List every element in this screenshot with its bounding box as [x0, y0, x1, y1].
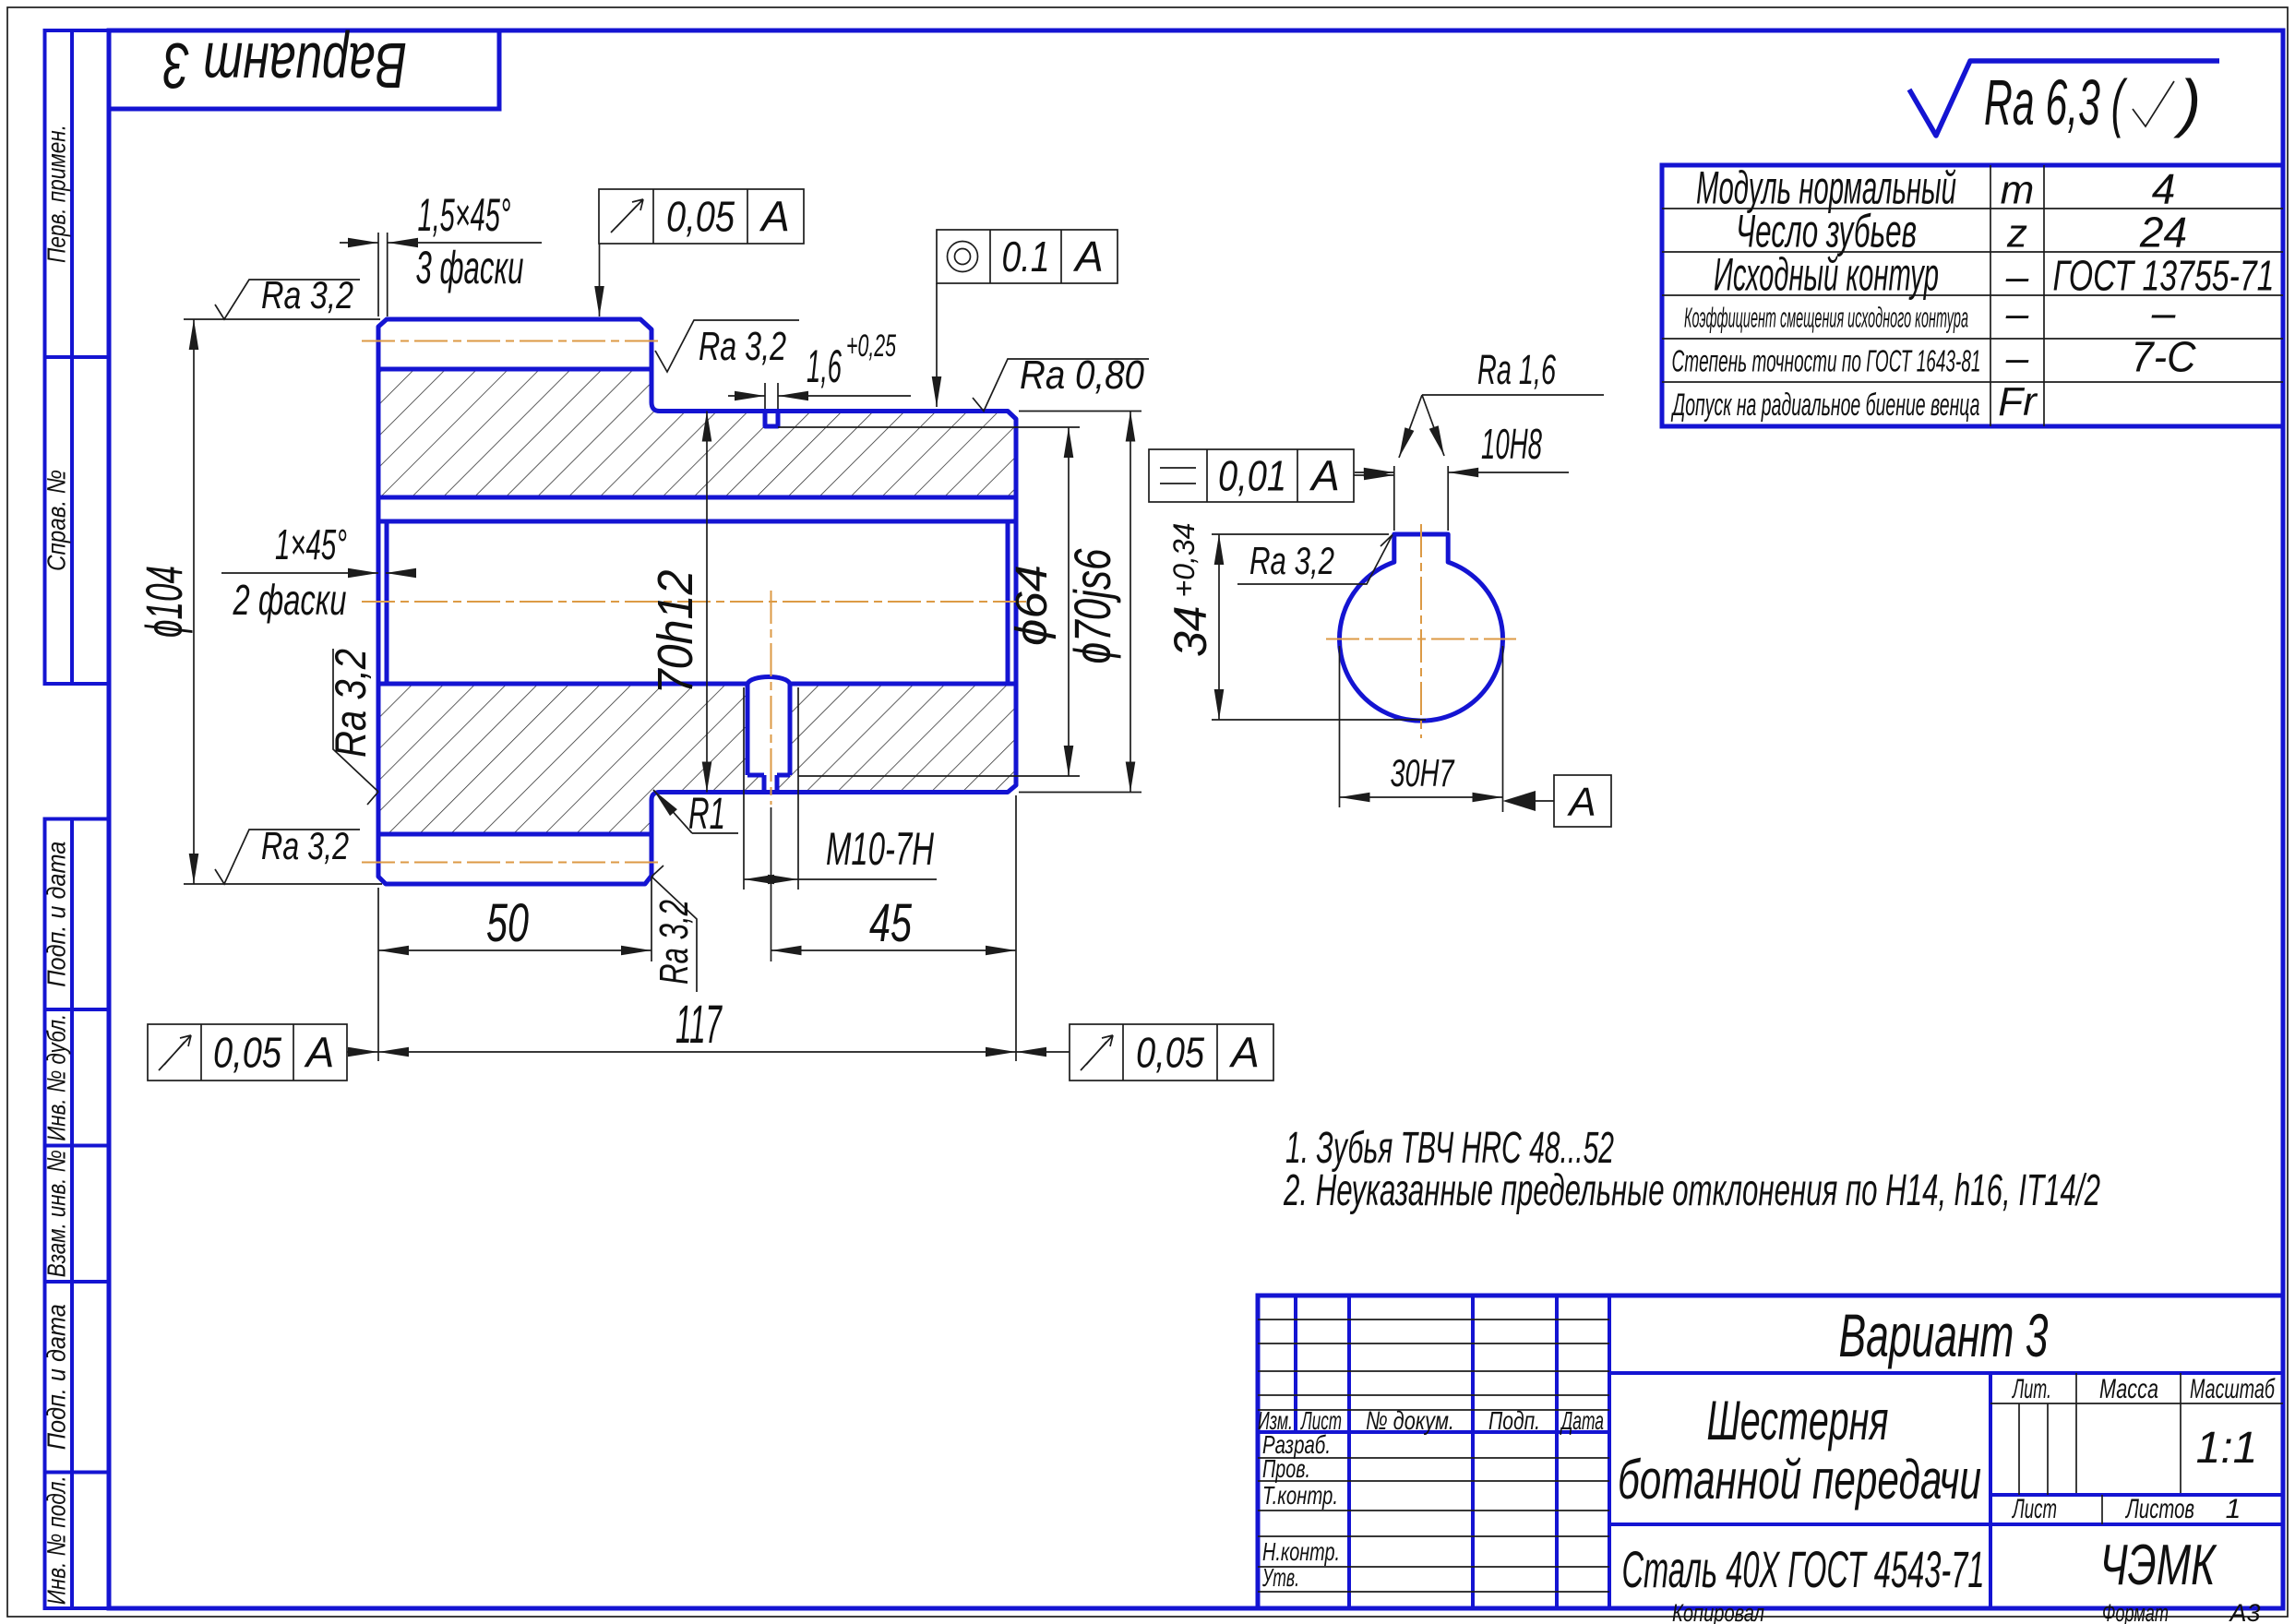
- svg-text:Инв. № подл.: Инв. № подл.: [42, 1475, 70, 1605]
- svg-text:24: 24: [2139, 209, 2187, 257]
- svg-text:A: A: [1309, 452, 1340, 500]
- svg-text:M10-7H: M10-7H: [826, 823, 935, 875]
- svg-text:Шестерня: Шестерня: [1707, 1390, 1889, 1451]
- svg-text:1:1: 1:1: [2196, 1424, 2258, 1473]
- svg-text:Ra 3,2: Ra 3,2: [326, 649, 375, 758]
- svg-text:Формат: Формат: [2102, 1599, 2169, 1624]
- svg-text:4: 4: [2152, 165, 2176, 213]
- svg-text:A: A: [1072, 233, 1104, 281]
- svg-text:Утв.: Утв.: [1261, 1563, 1299, 1592]
- svg-text:1,6: 1,6: [807, 340, 842, 392]
- svg-text:Fr: Fr: [1998, 379, 2038, 424]
- svg-text:Перв. примен.: Перв. примен.: [42, 125, 70, 263]
- svg-text:Н.контр.: Н.контр.: [1262, 1537, 1340, 1566]
- svg-text:Степень точности по ГОСТ 1643-: Степень точности по ГОСТ 1643-81: [1672, 343, 1981, 377]
- svg-text:ϕ64: ϕ64: [1008, 565, 1057, 646]
- svg-text:Подп. и дата: Подп. и дата: [42, 842, 70, 987]
- svg-text:Копировал: Копировал: [1672, 1599, 1764, 1624]
- svg-text:45: 45: [869, 893, 913, 953]
- svg-text:0,01: 0,01: [1218, 452, 1286, 500]
- svg-text:Пров.: Пров.: [1262, 1454, 1310, 1483]
- svg-text:Исходный контур: Исходный контур: [1714, 249, 1939, 301]
- svg-text:+0,25: +0,25: [846, 328, 896, 364]
- svg-text:50: 50: [486, 893, 529, 953]
- svg-text:Масса: Масса: [2099, 1374, 2158, 1404]
- svg-text:A: A: [304, 1029, 335, 1077]
- svg-text:Ra 0,80: Ra 0,80: [1020, 352, 1144, 398]
- svg-text:№ докум.: № докум.: [1366, 1406, 1454, 1435]
- svg-text:Ra 1,6: Ra 1,6: [1477, 346, 1557, 393]
- svg-text:Подп.: Подп.: [1488, 1406, 1540, 1435]
- svg-text:Лист: Лист: [2012, 1494, 2057, 1524]
- svg-text:10H8: 10H8: [1481, 420, 1542, 468]
- svg-text:Дата: Дата: [1560, 1406, 1604, 1435]
- svg-text:Т.контр.: Т.контр.: [1262, 1481, 1338, 1510]
- svg-text:70h12: 70h12: [648, 570, 703, 695]
- svg-text:30H7: 30H7: [1391, 751, 1455, 794]
- svg-text:Коэффициент смещения исходного: Коэффициент смещения исходного контура: [1684, 302, 1968, 334]
- svg-text:ботанной передачи: ботанной передачи: [1618, 1449, 1981, 1511]
- svg-text:Вариант 3: Вариант 3: [1839, 1301, 2049, 1369]
- svg-text:2 фаски: 2 фаски: [233, 576, 347, 624]
- svg-text:Ra 3,2: Ra 3,2: [261, 824, 349, 867]
- svg-text:Ra 3,2: Ra 3,2: [699, 324, 786, 369]
- svg-text:1,5×45°: 1,5×45°: [418, 189, 511, 241]
- svg-text:Масштаб: Масштаб: [2190, 1374, 2276, 1404]
- svg-text:A: A: [1228, 1029, 1260, 1077]
- svg-text:ϕ104: ϕ104: [135, 566, 193, 638]
- svg-text:Лит.: Лит.: [2012, 1374, 2051, 1404]
- svg-text:1: 1: [2226, 1494, 2241, 1524]
- svg-text:1×45°: 1×45°: [275, 520, 347, 568]
- svg-text:Ra 6,3 (: Ra 6,3 (: [1984, 66, 2128, 138]
- svg-text:Ra 3,2: Ra 3,2: [261, 273, 353, 316]
- svg-text:Взам. инв. №: Взам. инв. №: [42, 1150, 70, 1277]
- svg-text:Допуск на радиальное биение ве: Допуск на радиальное биение венца: [1670, 388, 1979, 423]
- svg-text:А3: А3: [2228, 1599, 2260, 1624]
- svg-text:Инв. № дубл.: Инв. № дубл.: [42, 1014, 70, 1141]
- svg-text:Подп. и дата: Подп. и дата: [42, 1304, 70, 1450]
- svg-text:Ra 3,2: Ra 3,2: [1249, 539, 1334, 582]
- svg-text:0,05: 0,05: [666, 193, 735, 241]
- svg-text:117: 117: [675, 995, 723, 1055]
- svg-text:ϕ70js6: ϕ70js6: [1063, 548, 1121, 664]
- svg-text:Сталь 40Х ГОСТ 4543-71: Сталь 40Х ГОСТ 4543-71: [1622, 1540, 1985, 1598]
- svg-text:–: –: [2005, 335, 2029, 380]
- svg-text:–: –: [2151, 289, 2176, 337]
- svg-text:3 фаски: 3 фаски: [416, 242, 524, 293]
- svg-text:0,05: 0,05: [213, 1029, 281, 1077]
- svg-text:Ra 3,2: Ra 3,2: [651, 900, 697, 985]
- svg-text:A: A: [759, 193, 790, 241]
- svg-text:A: A: [1566, 780, 1596, 825]
- svg-text:m: m: [2001, 168, 2035, 213]
- svg-text:Листов: Листов: [2125, 1494, 2194, 1524]
- svg-text:R1: R1: [688, 790, 725, 839]
- svg-text:z: z: [2006, 211, 2027, 257]
- svg-text:7-С: 7-С: [2132, 332, 2197, 380]
- svg-text:0.1: 0.1: [1002, 233, 1050, 281]
- svg-text:0,05: 0,05: [1136, 1029, 1204, 1077]
- svg-text:2. Неуказанные предельные отк: 2. Неуказанные предельные отклонения по …: [1283, 1166, 2100, 1215]
- svg-text:–: –: [2005, 292, 2029, 337]
- svg-text:ЧЭМК: ЧЭМК: [2100, 1534, 2218, 1597]
- svg-text:Вариант 3: Вариант 3: [163, 30, 407, 101]
- svg-text:Справ. №: Справ. №: [42, 470, 70, 571]
